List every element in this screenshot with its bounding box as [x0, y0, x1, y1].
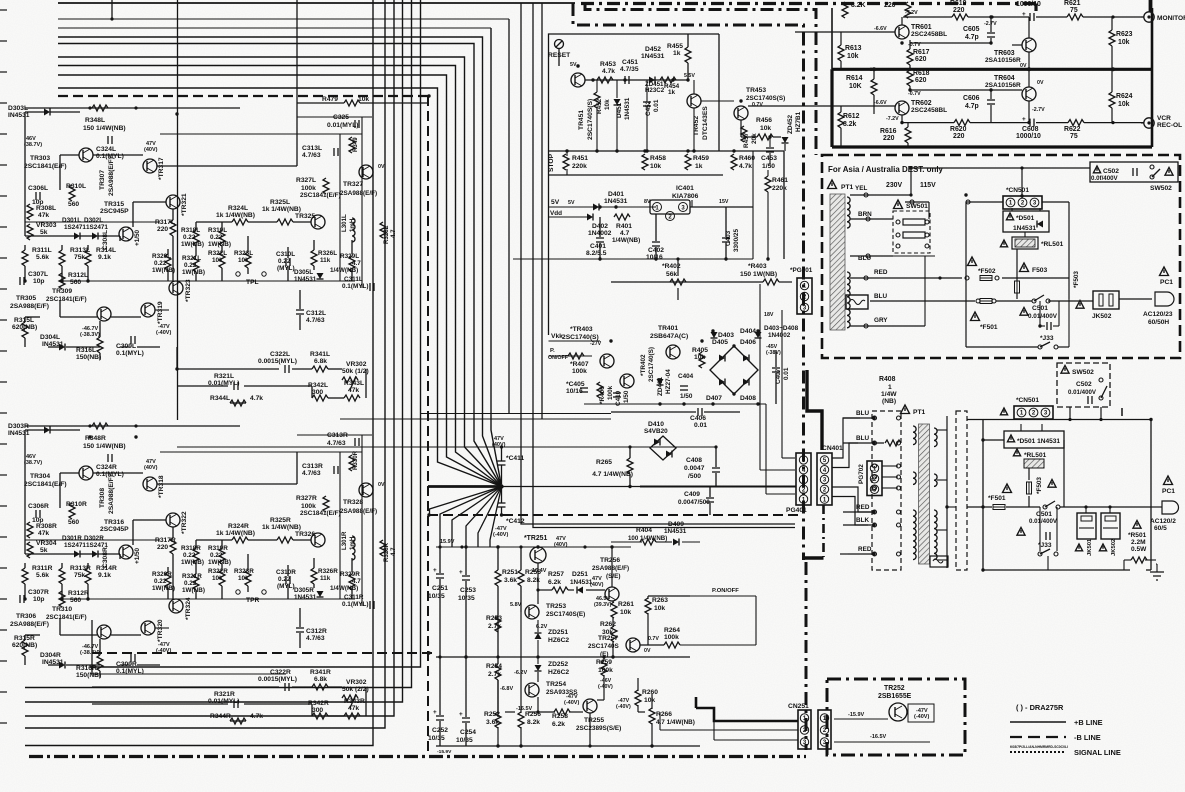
svg-text:0.22: 0.22	[210, 234, 223, 241]
svg-text:R408: R408	[879, 376, 896, 383]
resistor R256	[518, 712, 524, 728]
svg-text:C313R: C313R	[327, 432, 348, 439]
transistor TR327 R	[359, 483, 373, 497]
svg-text:9.1k: 9.1k	[98, 572, 111, 579]
wire bus drop 521 elbow right	[521, 3, 795, 524]
wire tr451 row	[585, 79, 687, 81]
svg-text:560: 560	[68, 519, 79, 526]
wire bus horiz y28	[58, 27, 491, 29]
svg-text:TR304: TR304	[30, 473, 50, 480]
resistor R329L	[349, 256, 355, 272]
svg-text:( ) - DRA275R: ( ) - DRA275R	[1016, 703, 1064, 712]
svg-text:D401: D401	[608, 191, 624, 198]
resistor R622	[1068, 120, 1084, 126]
resistor R327L	[323, 178, 329, 194]
svg-text:2SA988(E/F): 2SA988(E/F)	[108, 475, 115, 514]
resistor R457	[741, 126, 747, 142]
svg-text:VR302: VR302	[346, 679, 367, 686]
switch row lower	[1043, 505, 1047, 509]
resistor R320L	[165, 254, 171, 270]
svg-text:JK502: JK502	[1111, 538, 1117, 556]
wire left-edge stub 12	[0, 350, 7, 352]
svg-text:R310L: R310L	[66, 183, 86, 190]
transformer primary coil lower	[913, 426, 916, 445]
svg-text:47k: 47k	[348, 387, 359, 394]
svg-text:0.01/400V: 0.01/400V	[1028, 313, 1058, 320]
svg-text:R317R: R317R	[155, 537, 176, 544]
svg-text:R326L: R326L	[318, 250, 337, 257]
svg-text:1/50: 1/50	[680, 393, 693, 400]
capacitor C310R	[285, 576, 287, 584]
svg-text:1000/10: 1000/10	[1016, 133, 1041, 140]
wire tr317 row L	[157, 165, 297, 167]
connector CN401 right	[817, 453, 832, 505]
svg-text:(-38.3V): (-38.3V)	[80, 332, 100, 338]
svg-text:C453: C453	[761, 155, 777, 162]
jack JK502	[1093, 291, 1119, 309]
svg-text:RED: RED	[858, 546, 872, 553]
capacitor C410	[613, 392, 621, 394]
wire left-edge stub 11	[0, 319, 7, 321]
wire cn401 right fan	[832, 418, 860, 458]
wire left-edge stub 5	[0, 133, 7, 135]
svg-text:C608: C608	[1022, 126, 1039, 133]
wire bus drop 542	[541, 3, 543, 419]
capacitor C252	[436, 715, 444, 717]
capacitor C310L	[285, 258, 287, 266]
svg-text:47k: 47k	[38, 212, 49, 219]
svg-text:-6.6V: -6.6V	[874, 26, 887, 32]
svg-text:-0.7V: -0.7V	[908, 91, 921, 97]
resistor R348L	[92, 105, 108, 111]
svg-text:BLK: BLK	[856, 517, 869, 524]
svg-text:R253: R253	[486, 615, 502, 622]
resistor R323L	[245, 252, 251, 268]
svg-text:R312R: R312R	[68, 590, 89, 597]
svg-text:4.7p: 4.7p	[965, 34, 979, 41]
svg-text:8.2k: 8.2k	[527, 719, 540, 726]
svg-text:TR308: TR308	[99, 488, 106, 508]
resistor R311L	[22, 250, 28, 266]
svg-text:75k: 75k	[74, 572, 85, 579]
svg-text:R458: R458	[650, 155, 666, 162]
svg-text:4.7 1/4W(NB): 4.7 1/4W(NB)	[656, 719, 695, 726]
wire bottom bus y745	[25, 745, 373, 747]
svg-text:220: 220	[884, 2, 896, 9]
svg-text:(-40V): (-40V)	[493, 532, 508, 538]
svg-text:R343L: R343L	[344, 380, 364, 387]
svg-text:-15.9V: -15.9V	[437, 749, 452, 755]
wire left-edge stub 16	[0, 474, 7, 476]
inductor L301R	[352, 536, 355, 560]
svg-text:TR602: TR602	[911, 100, 932, 107]
svg-text:HZ7B1: HZ7B1	[795, 111, 802, 132]
svg-text:ON/OFF: ON/OFF	[548, 355, 569, 361]
resistor R251	[495, 570, 501, 586]
svg-text:2SC1740S(S): 2SC1740S(S)	[587, 99, 594, 140]
svg-text:0.22: 0.22	[183, 552, 196, 559]
svg-text:2SA10156R: 2SA10156R	[985, 57, 1021, 64]
svg-text:0V: 0V	[378, 164, 385, 170]
svg-text:R328R: R328R	[383, 542, 390, 562]
wire rail 47V y447	[177, 446, 700, 448]
svg-text:C310R: C310R	[276, 569, 296, 576]
svg-text:R325L: R325L	[270, 199, 290, 206]
svg-text:1W(NB): 1W(NB)	[152, 267, 175, 274]
svg-text:1mH: 1mH	[349, 218, 356, 232]
svg-text:-15.9V: -15.9V	[848, 712, 865, 718]
jack MONITOR	[1144, 12, 1154, 22]
capacitor C325 L	[354, 120, 356, 128]
capacitor C307L	[19, 277, 21, 285]
svg-text:R619: R619	[950, 0, 967, 7]
transistor TR402	[620, 374, 634, 388]
resistor R614	[871, 79, 877, 95]
resistor R323R	[245, 570, 251, 586]
resistor R315R	[22, 640, 28, 656]
diode D301R	[74, 551, 80, 558]
svg-text:C306L: C306L	[28, 185, 48, 192]
resistor R260	[635, 690, 641, 706]
svg-text:1W(NB): 1W(NB)	[181, 241, 204, 248]
svg-text:+: +	[1022, 116, 1026, 123]
svg-text:220: 220	[953, 7, 965, 14]
diode D452	[649, 77, 655, 84]
transistor TR309 L	[97, 307, 111, 321]
wire diode row R	[25, 553, 74, 555]
svg-text:JK502: JK502	[1092, 313, 1112, 320]
wire thick +B feed y486	[428, 485, 503, 488]
resistor R401	[614, 214, 630, 220]
wire tr309 row R	[60, 634, 97, 636]
svg-text:2SC945P: 2SC945P	[100, 208, 129, 215]
svg-text:4.7: 4.7	[352, 260, 361, 267]
wire bottom bus y702	[25, 701, 293, 703]
transistor TR403	[600, 354, 614, 368]
resistor R460	[731, 154, 737, 170]
svg-text:TR326: TR326	[295, 531, 315, 538]
svg-text:(MYL): (MYL)	[277, 583, 295, 590]
svg-text:R318L: R318L	[181, 227, 200, 234]
svg-text:BLU: BLU	[856, 435, 869, 442]
wire left-edge stub 19	[0, 567, 7, 569]
resistor R458	[642, 154, 648, 170]
resistor R344L	[230, 400, 246, 406]
transistor TR327 L	[359, 165, 373, 179]
diode D302R	[92, 551, 98, 558]
svg-text:2SC1740S(E): 2SC1740S(E)	[546, 611, 585, 618]
transistor TR254	[525, 683, 539, 697]
svg-text:5k: 5k	[40, 547, 48, 554]
wire star fan lower 3	[466, 487, 502, 548]
wire rail low R	[25, 539, 160, 541]
svg-text:10/35: 10/35	[456, 737, 473, 744]
resistor R317R	[170, 538, 176, 554]
node top junction	[110, 17, 113, 20]
svg-text:10k: 10k	[650, 163, 661, 170]
wire control bottom bus	[513, 258, 753, 260]
capacitor C313R	[333, 466, 335, 474]
svg-text:2SC1841(E/F): 2SC1841(E/F)	[300, 510, 341, 517]
wire R403 col down	[781, 310, 783, 458]
svg-text:R618: R618	[913, 70, 930, 77]
wire +B thick bottom elbow	[805, 556, 824, 559]
svg-text:R614: R614	[846, 75, 863, 82]
svg-text:100k: 100k	[607, 385, 614, 400]
transformer primary hatch	[830, 194, 845, 330]
resistor R328R	[380, 540, 386, 556]
wire bottom bus y674	[92, 673, 286, 675]
capacitor C306R	[35, 510, 37, 518]
svg-text:R341R: R341R	[310, 669, 331, 676]
wire tuner row1	[903, 16, 952, 18]
resistor R313L	[59, 250, 65, 266]
svg-text:/500: /500	[688, 473, 701, 480]
svg-text:2SC1740(S): 2SC1740(S)	[562, 334, 599, 341]
svg-text:-6.8V: -6.8V	[500, 686, 513, 692]
resistor R343L	[344, 395, 360, 401]
wire 230v row	[850, 194, 911, 196]
resistor R310R	[69, 503, 75, 519]
svg-text:R459: R459	[693, 155, 709, 162]
wire star fan lower 6	[430, 487, 502, 516]
resistor R258	[554, 709, 570, 715]
svg-text:60/5: 60/5	[1154, 525, 1167, 532]
svg-text:TR307: TR307	[99, 170, 106, 190]
transistor TR604	[1022, 87, 1036, 101]
svg-text:ZD251: ZD251	[548, 629, 568, 636]
resistor R312R	[59, 591, 65, 607]
wire bus drop 509	[508, 19, 510, 414]
svg-text:D405: D405	[712, 339, 728, 346]
testpoint TPR	[236, 590, 240, 594]
svg-text:*TR321: *TR321	[181, 193, 188, 216]
svg-text:0.1(MYL): 0.1(MYL)	[116, 350, 144, 357]
svg-text:2SC945P: 2SC945P	[100, 526, 129, 533]
diode D302L	[92, 233, 98, 240]
box tuner divider	[832, 68, 1152, 71]
svg-text:150 1W(NB): 150 1W(NB)	[740, 271, 777, 278]
capacitor C501 asia	[1020, 308, 1028, 316]
svg-text:4.7/63: 4.7/63	[327, 440, 346, 447]
wire outer vertical 1 to bottom bus	[25, 0, 373, 746]
svg-text:6.8k: 6.8k	[314, 676, 327, 683]
svg-text:100k: 100k	[572, 368, 587, 375]
svg-text:2SC2458BL: 2SC2458BL	[911, 107, 947, 114]
connector CN501 lower	[1014, 406, 1053, 419]
svg-text:0V: 0V	[378, 482, 385, 488]
transistor TR307 R	[79, 466, 93, 480]
svg-text:56k: 56k	[666, 271, 677, 278]
svg-text:P.: P.	[550, 348, 555, 354]
resistor R259	[601, 660, 607, 676]
svg-text:300: 300	[312, 707, 323, 714]
wire 115 verticals	[910, 168, 912, 195]
svg-text:R451: R451	[572, 155, 588, 162]
wire top thick bus	[58, 2, 575, 4]
svg-text:0.01/400V: 0.01/400V	[1029, 518, 1058, 525]
svg-text:R457: R457	[743, 132, 750, 148]
svg-text:100k: 100k	[598, 667, 613, 674]
svg-text:(-40V): (-40V)	[598, 684, 613, 690]
wire tr309 row L	[60, 316, 97, 318]
svg-text:0.01(MYL): 0.01(MYL)	[327, 122, 359, 129]
transistor TR321 L	[166, 195, 180, 209]
svg-text:R318R: R318R	[181, 545, 201, 552]
svg-text:VR304: VR304	[36, 540, 57, 547]
terminal strip primary dashed	[872, 411, 901, 570]
wire mid bus 657	[436, 656, 690, 658]
transistor TR451	[571, 73, 585, 87]
resistor R342R	[312, 713, 328, 719]
svg-text:-7.2V: -7.2V	[905, 10, 918, 16]
resistor R310L	[69, 185, 75, 201]
svg-text:R255: R255	[525, 569, 541, 576]
transformer core hatch lower	[919, 424, 930, 564]
wire tone net L	[177, 368, 279, 370]
svg-text:D302L: D302L	[84, 217, 103, 224]
svg-text:STOP: STOP	[548, 153, 555, 172]
svg-text:10k: 10k	[212, 257, 223, 264]
resistor R263	[645, 598, 651, 614]
svg-text:0.5W: 0.5W	[1131, 546, 1147, 553]
resistor R324L	[232, 219, 248, 225]
resistor R322L	[219, 252, 225, 268]
wire dashed signal mid	[428, 514, 800, 516]
svg-text:YEL: YEL	[855, 185, 867, 192]
wire tr321 row R	[133, 519, 166, 521]
resistor R319L	[219, 230, 225, 246]
svg-text:D410: D410	[648, 421, 664, 428]
resistor R314R	[85, 568, 91, 584]
svg-text:C502: C502	[1103, 168, 1119, 175]
svg-text:2SC2458BL: 2SC2458BL	[911, 31, 947, 38]
svg-text:TR401: TR401	[658, 325, 678, 332]
svg-text:2.2M: 2.2M	[1131, 539, 1146, 546]
svg-text:1W(NB): 1W(NB)	[208, 559, 231, 566]
svg-text:2SC1841(E/F): 2SC1841(E/F)	[46, 296, 87, 303]
resistor R341R	[312, 684, 328, 690]
resistor R261	[611, 602, 617, 618]
box tuner outline	[831, 8, 833, 69]
warning F503a	[1020, 263, 1029, 272]
svg-text:75: 75	[1070, 7, 1078, 14]
connector CN501 asia	[1003, 196, 1042, 209]
svg-text:1k: 1k	[668, 89, 676, 96]
resistor R624	[1109, 92, 1115, 108]
wire asia brn	[850, 218, 893, 220]
svg-text:C324R: C324R	[96, 464, 117, 471]
svg-text:2SA988(E/F): 2SA988(E/F)	[340, 190, 377, 197]
svg-text:R455: R455	[667, 43, 683, 50]
svg-text:+: +	[459, 569, 463, 576]
svg-text:0.7V: 0.7V	[752, 102, 763, 108]
capacitor C313L	[333, 148, 335, 156]
svg-text:(40V): (40V)	[590, 582, 604, 588]
svg-text:*F503: *F503	[1073, 271, 1080, 288]
svg-text:-B LINE: -B LINE	[1074, 733, 1101, 742]
switch SW502 box lower	[1057, 363, 1110, 407]
svg-text:C401: C401	[590, 243, 606, 250]
svg-text:75k: 75k	[74, 254, 85, 261]
wire left-edge stub 22	[0, 660, 7, 662]
svg-text:220k: 220k	[772, 185, 787, 192]
svg-text:C451: C451	[622, 59, 638, 66]
svg-text:1mH: 1mH	[349, 536, 356, 550]
svg-text:R257: R257	[548, 571, 564, 578]
wire Vdd row	[549, 216, 591, 218]
svg-text:ZD401: ZD401	[657, 376, 664, 396]
svg-text:8.2k: 8.2k	[843, 121, 857, 128]
svg-text:0.7V: 0.7V	[648, 636, 659, 642]
wire ic401 out	[690, 206, 753, 208]
svg-text:1N4002: 1N4002	[768, 332, 791, 339]
svg-text:10/16: 10/16	[566, 388, 583, 395]
terminal strip secondary dashed	[956, 411, 967, 570]
svg-text:(-38.3V): (-38.3V)	[80, 650, 100, 656]
svg-text:R624: R624	[1116, 93, 1133, 100]
wire loop left	[982, 420, 984, 571]
resistor R344R	[230, 718, 246, 724]
svg-text:R325R: R325R	[270, 517, 291, 524]
wire left-edge stub 15	[0, 443, 7, 445]
svg-text:620(NB): 620(NB)	[12, 642, 37, 649]
resistor R319R	[219, 548, 225, 564]
wire stop row	[549, 150, 785, 152]
resistor R405	[699, 352, 705, 368]
svg-text:D302R: D302R	[84, 535, 104, 542]
svg-text:D404: D404	[740, 328, 756, 335]
resistor R404	[640, 539, 656, 545]
svg-text:R320L: R320L	[152, 253, 171, 260]
svg-text:(MYL): (MYL)	[277, 265, 295, 272]
capacitor C311R	[369, 601, 371, 609]
wire control right col	[752, 151, 754, 259]
wire r324 row R	[196, 539, 232, 541]
svg-text:*R403: *R403	[748, 263, 767, 270]
svg-text:*C412: *C412	[506, 518, 525, 525]
svg-text:PG401: PG401	[786, 507, 807, 514]
wire tr317 row R	[157, 483, 297, 485]
wire tr604 base	[910, 89, 1022, 91]
svg-text:R254: R254	[486, 663, 502, 670]
svg-text:2SC1740(S): 2SC1740(S)	[648, 347, 655, 382]
diode D304R	[59, 662, 65, 669]
resistor R406	[597, 382, 603, 398]
svg-text:1/4W: 1/4W	[881, 391, 897, 398]
svg-text:IN4531: IN4531	[8, 112, 30, 119]
svg-text:D304L: D304L	[40, 334, 60, 341]
svg-text:4.7/63: 4.7/63	[302, 470, 321, 477]
svg-text:D305L: D305L	[294, 269, 313, 276]
svg-text:50k (2/2): 50k (2/2)	[342, 686, 369, 693]
svg-text:R316R: R316R	[76, 665, 97, 672]
resistor R454	[660, 77, 676, 83]
diode D303R IN4531	[44, 427, 50, 434]
svg-text:100k: 100k	[301, 185, 316, 192]
svg-text:C322R: C322R	[270, 669, 291, 676]
potentiometer VR303 L	[27, 224, 33, 240]
svg-text:4.7k: 4.7k	[250, 713, 263, 720]
transistor TR319 R	[141, 621, 155, 635]
svg-text:TR453: TR453	[746, 87, 766, 94]
wire block col177 R	[91, 620, 93, 674]
svg-text:1k 1/4W(NB): 1k 1/4W(NB)	[216, 530, 255, 537]
wire bus elbow 4 to star	[58, 66, 502, 487]
svg-text:0V: 0V	[1037, 80, 1044, 86]
svg-text:R319L: R319L	[208, 227, 227, 234]
wire loop bottom	[983, 569, 1130, 571]
